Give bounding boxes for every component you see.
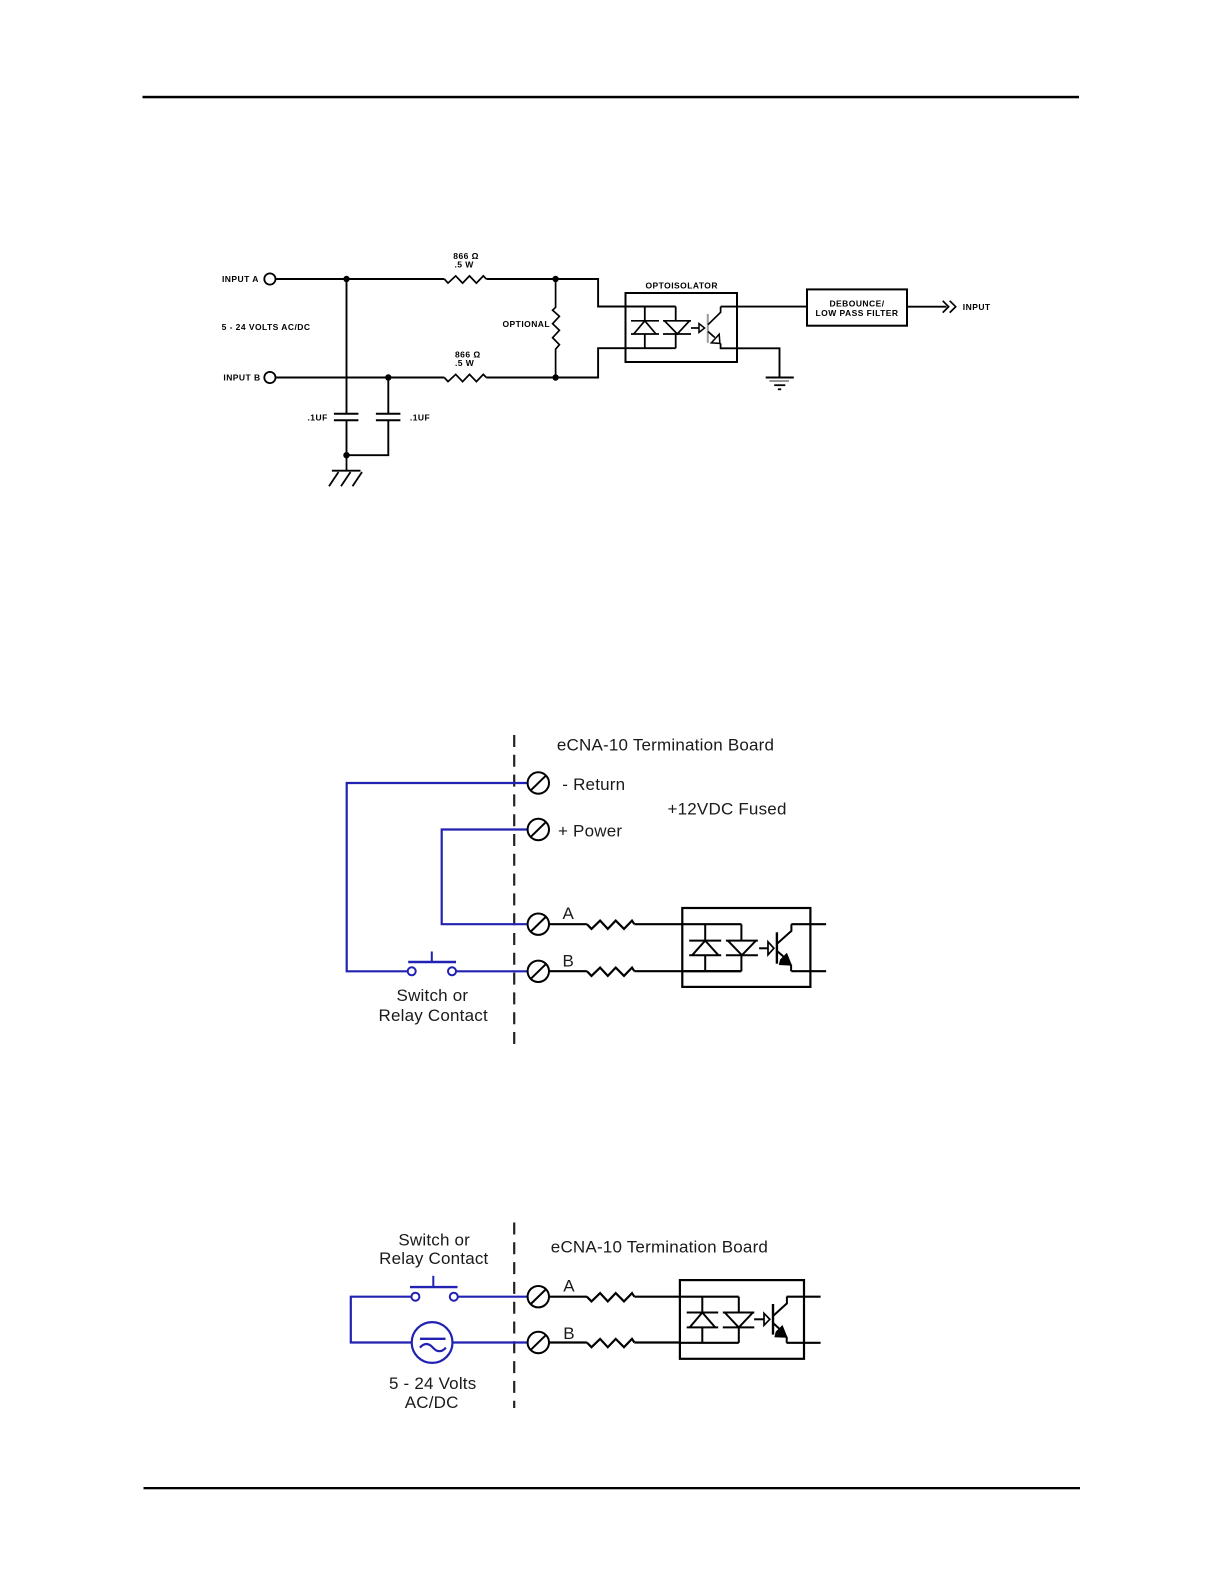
wire Q3 emitter out [787, 1342, 821, 1344]
diode D2 (LED down) [663, 321, 691, 334]
wire blue switch to B terminal [456, 970, 528, 972]
wire Q3 collector out [787, 1296, 821, 1298]
header rule [143, 96, 1080, 99]
wire diode D1 top lead [644, 307, 646, 321]
wire diode D2 top lead [675, 307, 677, 321]
wire node B1 down to capacitor C2 [387, 378, 389, 414]
wire Q2 collector out [791, 923, 826, 925]
svg-text:Switch or: Switch or [397, 986, 469, 1005]
svg-text:A: A [563, 1277, 575, 1296]
resistor A (bottom) [587, 1293, 635, 1301]
ground (hatched earth) [329, 455, 362, 486]
svg-text:OPTOISOLATOR: OPTOISOLATOR [646, 281, 718, 291]
wire input A to resistor [276, 278, 445, 280]
node ground junction [343, 452, 349, 458]
terminal A (bottom) [528, 1286, 549, 1307]
wire filter to output [907, 306, 947, 308]
wire C2 bottom to ground node [347, 420, 389, 455]
dashed separator (middle) [513, 735, 515, 1045]
svg-text:eCNA-10 Termination Board: eCNA-10 Termination Board [557, 736, 774, 755]
wire R1 to node [486, 278, 555, 280]
wire blue source to B terminal (bottom) [453, 1341, 528, 1343]
svg-text:B: B [563, 952, 575, 971]
svg-text:.5 W: .5 W [455, 260, 475, 270]
node junction A2 [552, 276, 558, 282]
wire A to resistor (middle) [550, 923, 587, 925]
U1 input top rail [626, 306, 676, 308]
svg-text:eCNA-10 Termination Board: eCNA-10 Termination Board [551, 1237, 768, 1256]
transistor Q3 collector [773, 1297, 787, 1316]
transistor Q1 emitter with open arrow [708, 332, 715, 338]
transistor Q2 base line [776, 932, 778, 963]
wire Q2 emitter out [791, 970, 826, 972]
svg-text:+12VDC Fused: +12VDC Fused [668, 800, 787, 819]
wire blue switch to A terminal (bottom) [458, 1296, 528, 1298]
svg-text:INPUT B: INPUT B [223, 373, 260, 383]
svg-text:Relay Contact: Relay Contact [379, 1006, 488, 1025]
svg-text:.1UF: .1UF [410, 412, 430, 422]
wire U3 D6 bottom lead [738, 1327, 740, 1342]
resistor B (bottom) [587, 1339, 635, 1347]
node junction B2 [552, 374, 558, 380]
diode D3 (up) [689, 941, 721, 956]
transistor Q1 base line [707, 314, 709, 343]
output chevrons [943, 301, 956, 313]
wire C1 bottom to ground node [346, 420, 348, 455]
wire B to resistor (bottom) [550, 1341, 587, 1343]
wire node B2 to optoisolator pin2 [556, 348, 626, 377]
capacitor C1 .1UF [334, 414, 359, 420]
transistor Q3 base line [772, 1304, 774, 1335]
switch S1 (middle) [408, 952, 456, 976]
wire U3 D5 bottom lead [701, 1327, 703, 1342]
diode D6 (down) [723, 1313, 755, 1328]
capacitor C2 .1UF [376, 414, 401, 420]
svg-text:INPUT A: INPUT A [222, 274, 259, 284]
svg-text:AC/DC: AC/DC [405, 1393, 459, 1412]
diode D4 (down) [726, 941, 758, 956]
transistor Q2 collector [777, 924, 791, 943]
diode D5 (up) [687, 1313, 719, 1328]
svg-text:+ Power: + Power [558, 822, 622, 841]
dashed separator (bottom) [513, 1223, 515, 1409]
wire resistor to U2 [634, 923, 741, 925]
transistor Q3 emitter with filled arrow [773, 1323, 781, 1331]
diode D1 (LED up) [631, 321, 659, 334]
wire U2 diode D4 top lead [740, 924, 742, 940]
svg-text:.1UF: .1UF [308, 412, 328, 422]
AC/DC source V1 [412, 1322, 453, 1363]
wire emitter out to ground [737, 348, 780, 377]
wire resistor B to U2 [634, 970, 741, 972]
transistor Q2 emitter with filled arrow [777, 951, 786, 959]
wire U3 diode D5 top lead [701, 1297, 703, 1313]
wire blue return to switch [347, 783, 528, 971]
wire node A2 to optoisolator pin1 [556, 279, 626, 307]
svg-text:.5 W: .5 W [455, 358, 475, 368]
node junction A1 [343, 276, 349, 282]
optoisolator U1 box [626, 293, 738, 362]
svg-text:Relay Contact: Relay Contact [379, 1249, 488, 1268]
svg-text:OPTIONAL: OPTIONAL [503, 319, 551, 329]
wire input B to resistor [276, 377, 445, 379]
terminal A (middle) [528, 914, 549, 935]
wire A to resistor (bottom) [550, 1296, 587, 1298]
wire collector out to filter [721, 306, 807, 308]
transistor Q1 collector [708, 307, 721, 325]
terminal INPUT A [264, 273, 275, 284]
switch S2 (bottom) [410, 1276, 458, 1301]
resistor R1 866 ohm [444, 276, 486, 283]
terminal B (bottom) [528, 1332, 549, 1353]
wire R2 to node [486, 377, 555, 379]
U1 input bottom rail [626, 347, 676, 349]
wire blue power to A terminal [442, 830, 528, 925]
light arrow U1 [691, 327, 699, 329]
wire blue switch to source (bottom) [351, 1297, 412, 1343]
wire diode D1 bottom lead [644, 334, 646, 348]
svg-text:Switch or: Switch or [398, 1231, 470, 1250]
svg-text:- Return: - Return [562, 775, 625, 794]
wire U2 D3 bottom lead [704, 955, 706, 971]
svg-text:B: B [563, 1324, 575, 1343]
optoisolator U3 box [680, 1280, 804, 1359]
U2 bottom rail [682, 970, 741, 972]
debounce low pass filter box [807, 289, 907, 325]
wire node A1 down to capacitor C1 [346, 279, 348, 414]
terminal Power [528, 819, 549, 840]
resistor R3 optional (vertical) [553, 279, 560, 378]
resistor B (middle) [587, 968, 635, 976]
wire B to resistor (middle) [550, 970, 587, 972]
svg-text:5 - 24 Volts: 5 - 24 Volts [389, 1374, 476, 1393]
terminal Return [528, 772, 549, 793]
svg-text:INPUT: INPUT [963, 302, 991, 312]
light arrow U3 [754, 1318, 764, 1320]
optoisolator U2 box [682, 908, 810, 987]
wire resistor B to U3 [634, 1341, 680, 1343]
wire U2 D4 bottom lead [740, 955, 742, 971]
wire Q1 emitter to box edge [721, 343, 737, 348]
wire diode D2 bottom lead [675, 334, 677, 348]
ground (earth) below U1 [766, 378, 794, 390]
svg-text:A: A [563, 904, 575, 923]
footer rule [144, 1487, 1081, 1489]
terminal INPUT B [264, 372, 275, 383]
terminal B (middle) [528, 961, 549, 982]
light arrow U2 [759, 947, 768, 949]
svg-text:DEBOUNCE/: DEBOUNCE/ [829, 299, 884, 309]
wire U2 diode D3 top lead [704, 924, 706, 940]
wire U3 diode D6 top lead [738, 1297, 740, 1313]
U3 bottom rail [680, 1342, 739, 1344]
svg-text:5 - 24 VOLTS AC/DC: 5 - 24 VOLTS AC/DC [222, 322, 311, 332]
svg-text:LOW PASS FILTER: LOW PASS FILTER [816, 308, 899, 318]
resistor A (middle) [587, 921, 635, 929]
wire resistor to U3 [634, 1296, 738, 1298]
node junction B1 [385, 374, 391, 380]
resistor R2 866 ohm [444, 374, 486, 381]
